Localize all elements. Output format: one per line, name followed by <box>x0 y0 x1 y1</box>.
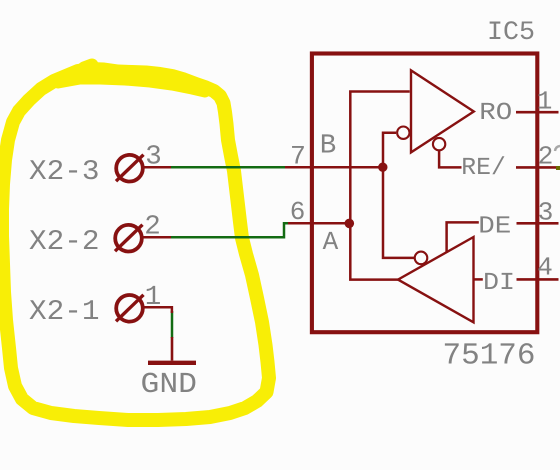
svg-text:RE/: RE/ <box>461 155 506 182</box>
terminal X2-2 <box>115 225 171 252</box>
pin 6 line (A) <box>288 222 350 225</box>
pin 3 line <box>517 222 559 225</box>
svg-text:4: 4 <box>537 253 553 283</box>
svg-text:X2-1: X2-1 <box>29 295 100 328</box>
pin 7 line (B) <box>285 166 383 169</box>
pin 2 line <box>516 166 559 169</box>
pin 4 line <box>517 278 559 281</box>
terminal X2-1 <box>116 295 172 322</box>
svg-text:1: 1 <box>145 282 162 313</box>
junction A <box>345 219 355 229</box>
driver inverting output bubble <box>415 252 428 265</box>
terminal X2-3 <box>116 155 171 182</box>
highlighter pen-start bump <box>84 65 92 68</box>
clipped glyph at edge <box>555 146 560 151</box>
svg-text:7: 7 <box>290 141 306 171</box>
highlighter top second pass <box>58 79 205 92</box>
wire RE bubble to RE/ label <box>439 150 461 167</box>
svg-text:GND: GND <box>141 368 198 401</box>
svg-text:DE: DE <box>478 214 511 241</box>
wire X2-3 to pin 7 <box>171 166 285 169</box>
wire X2-2 to pin 6 <box>171 223 288 237</box>
wire apex to DI <box>474 278 483 281</box>
wire X2-1 to ground <box>171 311 174 338</box>
svg-text:6: 6 <box>290 197 306 227</box>
wire DE label to driver enable <box>447 222 479 252</box>
svg-text:IC5: IC5 <box>487 17 535 47</box>
svg-text:DI: DI <box>483 270 515 297</box>
svg-text:A: A <box>323 227 339 257</box>
pin 1 line <box>516 111 559 114</box>
receiver inverting input bubble <box>397 127 409 139</box>
svg-text:RO: RO <box>479 100 512 127</box>
receiver enable bubble <box>433 138 445 150</box>
highlighter loop <box>2 69 269 420</box>
junction B <box>378 163 387 172</box>
svg-text:3: 3 <box>538 198 554 228</box>
wire A net vertical to receiver input and driver apex <box>350 92 409 280</box>
svg-text:2: 2 <box>538 142 554 172</box>
svg-text:2: 2 <box>144 212 161 243</box>
wire B net vertical to receiver bubble and driver bubble <box>383 133 415 258</box>
svg-text:X2-3: X2-3 <box>29 155 100 188</box>
svg-text:X2-2: X2-2 <box>29 225 100 258</box>
driver buffer <box>398 237 474 322</box>
clipped junction at edge <box>556 166 560 170</box>
svg-text:75176: 75176 <box>443 340 536 374</box>
svg-text:B: B <box>320 130 337 161</box>
svg-text:1: 1 <box>537 87 553 117</box>
receiver buffer <box>411 70 474 152</box>
svg-text:3: 3 <box>145 142 162 173</box>
ground <box>148 337 196 363</box>
IC5 box <box>312 54 537 333</box>
